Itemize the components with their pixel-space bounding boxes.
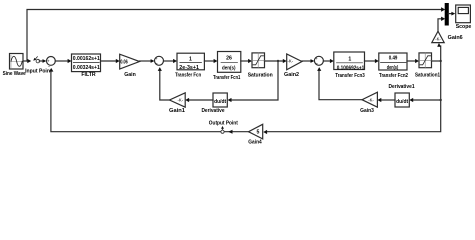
wire: sum1 to FILTR	[55, 59, 71, 63]
svg-text:26: 26	[226, 56, 232, 62]
svg-text:2e-3s+1: 2e-3s+1	[179, 65, 199, 71]
svg-text:Scope: Scope	[456, 24, 472, 30]
svg-text:0.00324s+1: 0.00324s+1	[73, 65, 100, 71]
block Saturation1	[419, 53, 432, 68]
wire: Derivative1 to Gain3	[377, 98, 395, 102]
output point marker	[221, 126, 224, 133]
svg-text:Gain: Gain	[124, 72, 136, 78]
gain Gain (0.06)	[120, 54, 140, 69]
gain Gain6 (points up)	[432, 31, 444, 42]
block Saturation	[252, 53, 265, 68]
wire: Gain3 to sum3 bottom input	[317, 67, 362, 100]
wire: Gain2 to sum3	[302, 59, 315, 63]
block Transfer Fcn3	[334, 52, 365, 71]
node: junction Saturation1 output on bus	[440, 60, 442, 62]
wire: sum2 to Transfer Fcn	[164, 59, 178, 63]
svg-text:-K-: -K-	[178, 98, 184, 103]
block Derivative1	[395, 93, 409, 107]
block Derivative	[213, 93, 227, 107]
mux	[445, 4, 448, 25]
svg-text:Input Point: Input Point	[25, 69, 52, 75]
svg-text:du/dt: du/dt	[396, 99, 408, 105]
svg-text:Sine Wave: Sine Wave	[3, 71, 26, 77]
block Transfer Fcn2	[379, 53, 407, 71]
gain Gain2	[287, 54, 302, 70]
wire: Gain4 through Output Point to sum1 bottom input	[49, 68, 248, 132]
svg-text:-K-: -K-	[288, 59, 294, 64]
svg-text:Gain2: Gain2	[284, 72, 299, 78]
gain Gain3 (points left)	[362, 92, 377, 107]
wire: arrow into Mux top input	[441, 7, 445, 11]
svg-text:1: 1	[348, 56, 351, 62]
wire: Transfer Fcn1 to Saturation	[241, 59, 252, 63]
wire: FILTR to Gain	[101, 59, 120, 63]
svg-text:Gain1: Gain1	[169, 108, 185, 114]
input point marker on wire	[33, 57, 40, 63]
svg-text:Output Point: Output Point	[209, 121, 238, 127]
wire: Transfer Fcn3 to Transfer Fcn2	[365, 59, 379, 63]
wire: Gain1 to sum2 bottom input	[158, 67, 170, 100]
wire: branch up and right to Mux (top long wire)	[27, 10, 441, 62]
block Transfer Fcn1	[218, 52, 241, 73]
svg-text:Derivative1: Derivative1	[388, 84, 414, 90]
wire: sum3 to Transfer Fcn3	[323, 59, 333, 63]
svg-text:-K-: -K-	[435, 37, 441, 42]
wire: Transfer Fcn to Transfer Fcn1	[204, 59, 217, 63]
svg-text:Gain6: Gain6	[448, 35, 463, 41]
wire: branch down and left to Derivative input	[228, 61, 278, 102]
sum junction sum3	[314, 56, 323, 65]
svg-text:1: 1	[189, 56, 192, 62]
svg-text:den(s): den(s)	[222, 66, 236, 72]
wire: bus tap left into Derivative1	[409, 98, 440, 102]
wire: Gain to sum2	[140, 59, 155, 63]
wire: Saturation to Gain2	[265, 59, 287, 63]
svg-text:den(s): den(s)	[387, 65, 399, 71]
node: branch junction to Derivative	[277, 60, 279, 62]
svg-text:5: 5	[257, 130, 260, 136]
block FILTR (transfer function)	[72, 54, 101, 72]
wire: mid arrow at Output Point	[228, 130, 232, 134]
wire: Gain6 output up and right to Mux bottom input	[438, 17, 445, 32]
wire: Transfer Fcn2 to Saturation1	[407, 59, 419, 63]
wire: Derivative to Gain1	[185, 98, 213, 102]
svg-text:Transfer Fcn3: Transfer Fcn3	[335, 73, 364, 79]
svg-text:Derivative: Derivative	[201, 108, 224, 114]
gain Gain4 (points left, value 5)	[249, 124, 263, 139]
gain Gain1 (points left)	[170, 93, 186, 107]
svg-text:0.49: 0.49	[389, 55, 398, 61]
svg-text:FILTR: FILTR	[81, 72, 96, 78]
svg-text:-K-: -K-	[368, 97, 374, 102]
svg-text:Transfer Fcn: Transfer Fcn	[175, 73, 201, 79]
block Scope	[456, 5, 471, 23]
wire: bus up into Gain6 input	[437, 43, 441, 61]
svg-text:Saturation1: Saturation1	[415, 72, 440, 78]
svg-text:Transfer Fcn2: Transfer Fcn2	[379, 73, 408, 79]
node: junction bus at Derivative1 tap	[440, 99, 442, 101]
svg-text:Saturation: Saturation	[248, 72, 273, 78]
wire: Mux output to Scope	[448, 12, 455, 16]
svg-text:0.06: 0.06	[120, 59, 127, 65]
svg-text:0.00162s+1: 0.00162s+1	[73, 56, 100, 62]
svg-text:du/dt: du/dt	[214, 99, 226, 105]
wire: bus down to bottom feedback and left to Gain4	[267, 61, 440, 132]
svg-text:0.100692s+1: 0.100692s+1	[337, 65, 365, 71]
sum junction sum1	[47, 57, 56, 69]
wire: input point to sum1	[39, 59, 46, 63]
wire: Saturation1 output to right bus	[432, 60, 441, 62]
block Sine Wave	[10, 54, 24, 70]
wire: arrow into Gain4	[263, 130, 267, 134]
sum junction sum2	[155, 56, 164, 65]
svg-text:Gain3: Gain3	[360, 108, 374, 114]
svg-text:Transfer Fcn1: Transfer Fcn1	[213, 75, 240, 81]
wire: sine wave output to branch point	[23, 59, 31, 63]
svg-text:Gain4: Gain4	[248, 140, 262, 146]
block Transfer Fcn	[177, 53, 204, 71]
